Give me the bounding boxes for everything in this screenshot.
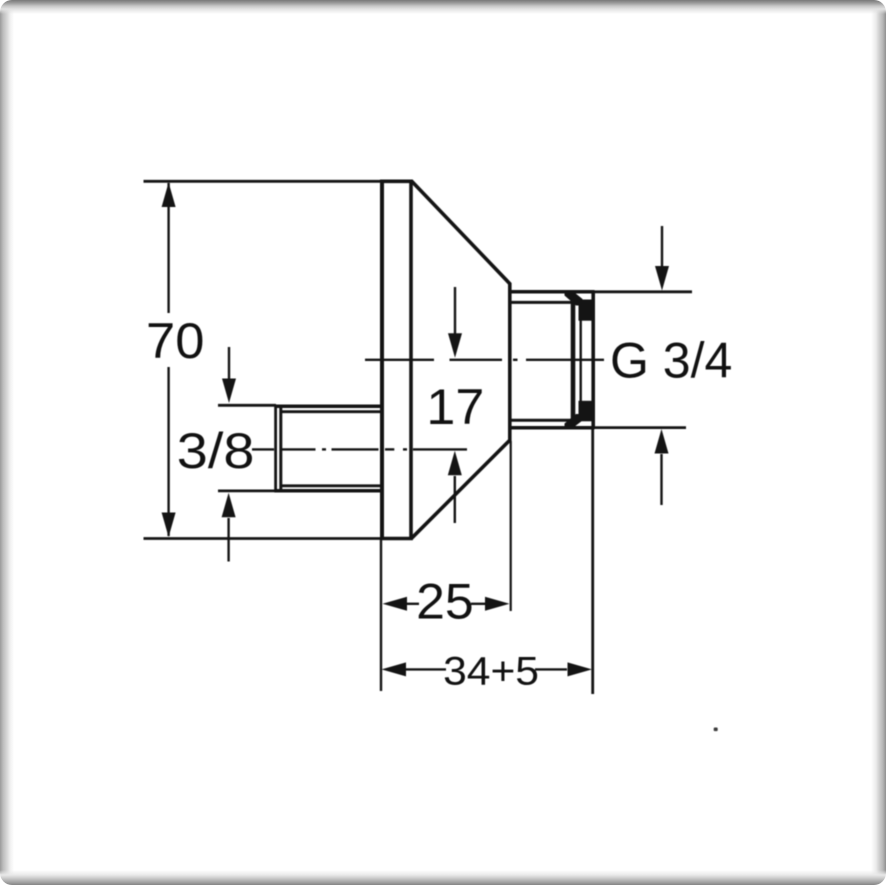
dimension 3/8: upper arrow	[222, 347, 236, 403]
dimension 25: dimension line with arrows	[383, 597, 510, 611]
chamfer black fill top	[565, 291, 583, 306]
cone taper body	[411, 181, 510, 539]
dimension G 3/4: upper arrow	[655, 226, 669, 291]
stray printed dot	[714, 728, 718, 732]
thread runout line	[571, 292, 576, 427]
chamfer edge line	[580, 316, 582, 405]
svg-text:G 3/4: G 3/4	[610, 332, 732, 388]
dimension 70: dimension line with arrows	[162, 183, 176, 538]
right pipe G3/4 thread outline	[510, 291, 595, 429]
dimension 3/8: lower arrow	[222, 493, 236, 562]
dimension 3/8: extension lines	[218, 404, 276, 407]
dimension 17: lower arrow	[448, 451, 462, 523]
pipe end face	[591, 293, 595, 427]
dimension 17: upper arrow	[448, 287, 462, 358]
svg-text:34+5: 34+5	[443, 649, 539, 693]
dimension 34+5: dimension line with arrows	[382, 662, 593, 676]
svg-text:70: 70	[146, 313, 204, 369]
3/8 pipe axis centerline (dash-dot)	[252, 448, 467, 450]
dimension G 3/4: extension lines	[595, 290, 693, 293]
svg-text:25: 25	[416, 573, 474, 629]
dimension 70: extension lines	[144, 180, 381, 183]
chamfer edge line	[279, 405, 282, 492]
chamfer black fill bottom	[565, 414, 583, 429]
bottom dims: left extension line	[380, 540, 382, 691]
left pipe 3/8 thread outline	[275, 405, 382, 492]
svg-text:3/8: 3/8	[177, 423, 255, 479]
dimension 34+5: right extension line	[591, 430, 594, 695]
dimension 25: right extension line	[510, 441, 512, 611]
svg-text:17: 17	[426, 379, 484, 435]
dimension G 3/4: lower arrow	[655, 429, 669, 505]
main axis centerline (dash-dot)	[365, 359, 604, 361]
wall flange outline	[380, 181, 413, 539]
pipe end face	[274, 405, 277, 492]
